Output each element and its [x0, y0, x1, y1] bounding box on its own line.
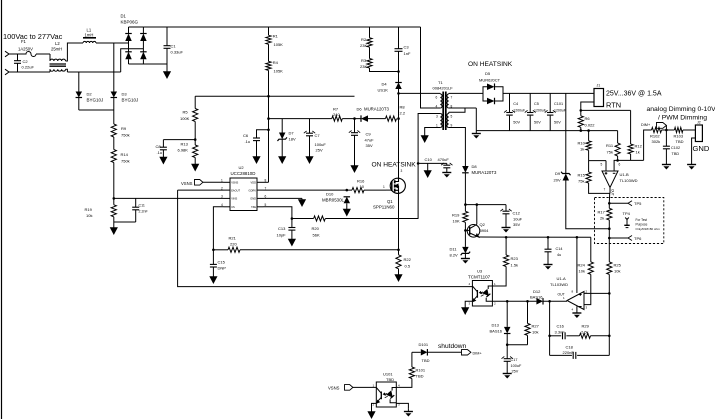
wire D6 to R8: [368, 118, 386, 120]
svg-text:1.5k: 1.5k: [511, 263, 519, 268]
svg-text:Purpose: Purpose: [636, 223, 648, 227]
svg-text:R29: R29: [582, 324, 590, 329]
svg-text:R20: R20: [312, 226, 320, 231]
svg-text:5: 5: [451, 115, 453, 119]
wire C101 column top: [549, 93, 551, 112]
svg-text:C18: C18: [566, 345, 574, 350]
wire U3 cathode line: [492, 300, 536, 302]
wire to R9: [113, 110, 115, 124]
wire U101 to R101: [396, 379, 412, 388]
wire U1A in+ wire: [584, 274, 591, 304]
junction drain top: [397, 92, 400, 95]
wire CS line left: [213, 249, 228, 251]
ground under J2: [687, 163, 696, 170]
svg-text:DIM+: DIM+: [641, 123, 651, 127]
wire RTN line: [581, 109, 631, 111]
ground under U1-A: [572, 312, 581, 319]
resistor R19 secondary: [463, 211, 468, 222]
wire U3 anode: [492, 285, 506, 287]
svg-text:100Vac to 277Vac: 100Vac to 277Vac: [3, 32, 63, 41]
test point TP4 symbol: [624, 218, 629, 228]
bridge left column mid wire: [128, 41, 130, 52]
junction R5 bottom: [194, 138, 197, 141]
wire R15 to out: [589, 183, 610, 193]
capacitor C18: [573, 352, 576, 359]
wire C102 top: [665, 130, 667, 146]
wire C16 to R29: [566, 335, 579, 337]
wire Q2 collector: [476, 205, 478, 225]
inductor L1: [83, 41, 96, 43]
wire J1 RTN pin: [581, 102, 594, 116]
svg-text:8.2V: 8.2V: [450, 253, 459, 258]
wire CS line right: [240, 249, 399, 251]
primary ground pin6: [298, 198, 306, 207]
primary ground under R13: [191, 158, 199, 172]
junction C17 node: [506, 343, 509, 346]
terminal VSNS top: [195, 180, 203, 186]
wire pin7 to D5: [449, 92, 483, 94]
primary ground under C15: [209, 267, 217, 284]
wire R15 link: [588, 161, 590, 172]
wire R5 top: [194, 96, 196, 108]
wire gate into Q1: [386, 189, 392, 191]
svg-text:6: 6: [436, 96, 438, 100]
svg-text:ON HEATSINK: ON HEATSINK: [468, 61, 513, 68]
wire J2 gnd pin: [692, 138, 696, 163]
svg-text:10k: 10k: [86, 213, 92, 218]
wire aux column elbow: [417, 218, 419, 220]
wire R23 to opto: [492, 267, 506, 287]
secondary ground under C12: [502, 214, 511, 233]
svg-text:R101: R101: [416, 368, 426, 373]
svg-text:C8: C8: [156, 144, 162, 149]
rectifier D5 bottom diode: [487, 98, 495, 105]
svg-text:For Test: For Test: [636, 218, 648, 222]
wire drain column: [398, 93, 400, 178]
inductor L2 core lines: [50, 64, 67, 66]
svg-text:0.5: 0.5: [405, 264, 411, 269]
svg-text:105K: 105K: [274, 42, 284, 47]
wire C7 hang: [309, 119, 311, 134]
bridge diode D1b: [125, 52, 132, 60]
wire bus to C3: [398, 27, 400, 49]
svg-text:TCMT1107: TCMT1107: [468, 274, 491, 279]
svg-text:50V: 50V: [513, 121, 520, 125]
svg-text:0084201LF: 0084201LF: [433, 86, 454, 91]
op-amp U1-A: [567, 292, 584, 310]
capacitor C6: [253, 138, 260, 141]
junction C10 on aux column: [417, 162, 420, 165]
wire pin8-pin5 jog: [449, 108, 465, 112]
connector J1 box: [594, 89, 604, 107]
resistor R8: [386, 116, 397, 121]
capacitor C15: [210, 264, 217, 267]
junction comp left1: [548, 335, 551, 338]
svg-text:U3: U3: [477, 269, 483, 274]
wire R10 bottom: [588, 150, 590, 160]
wire U1A in- wire: [584, 292, 609, 294]
diode D101: [421, 349, 428, 356]
svg-text:7: 7: [604, 188, 606, 192]
svg-text:C1: C1: [171, 44, 177, 49]
resistor R24: [588, 262, 593, 275]
wire C11 top: [135, 198, 137, 207]
svg-text:C10: C10: [425, 157, 433, 162]
wire R19 bottom: [113, 217, 115, 222]
svg-text:50V: 50V: [534, 121, 541, 125]
wire in- segment: [614, 160, 644, 171]
svg-text:TP5: TP5: [634, 201, 642, 206]
wire R12 column: [630, 110, 632, 144]
U2 left pin 1 stub: [224, 181, 231, 183]
bridge left column bottom wire: [128, 59, 130, 64]
svg-text:0.22uF: 0.22uF: [22, 65, 35, 70]
svg-text:shutdown: shutdown: [438, 343, 467, 350]
junction CS at source: [397, 249, 400, 252]
wire VSNS to pin1: [203, 181, 224, 183]
resistor R6: [578, 116, 583, 128]
wire node139 to C8: [163, 139, 195, 141]
wire to D101: [412, 351, 421, 353]
test point TP5: [628, 201, 632, 206]
resistor R23: [504, 255, 509, 267]
svg-text:9: 9: [451, 124, 453, 128]
primary ground under C8: [159, 150, 167, 165]
svg-text:D12: D12: [533, 289, 541, 294]
U2 right pin 7 stub: [257, 189, 264, 191]
svg-text:.1u: .1u: [157, 150, 163, 155]
svg-text:MBR0530L: MBR0530L: [322, 197, 345, 202]
primary ground under R22: [394, 269, 402, 282]
wire R3 to snubber node: [370, 68, 399, 72]
wire secondary gnd rail: [476, 130, 617, 132]
svg-text:1200uF: 1200uF: [513, 109, 525, 113]
wire U101 pin2 gnd: [372, 403, 377, 408]
primary ground under C7: [305, 136, 313, 164]
wire choke to L1: [66, 43, 84, 61]
svg-text:VDD: VDD: [251, 181, 257, 185]
junction rail118 drain: [397, 117, 400, 120]
wire TZE line: [292, 218, 314, 220]
svg-text:75k: 75k: [607, 150, 613, 155]
svg-text:R3: R3: [361, 58, 367, 63]
svg-text:C102: C102: [671, 146, 680, 150]
terminal DIM+ top: [657, 123, 667, 129]
T1 secondary winding 1: [447, 94, 449, 108]
svg-text:C9: C9: [366, 132, 372, 137]
diode D3: [111, 92, 118, 98]
wire D8 to node: [464, 173, 466, 212]
wire Q1 source column: [398, 193, 400, 255]
resistor R3: [367, 59, 372, 69]
wire T1 pin6 stub: [439, 92, 441, 95]
wire R6 bottom: [580, 127, 582, 130]
svg-text:R15: R15: [578, 173, 586, 178]
junction VINS node: [113, 197, 116, 200]
wire T1 pin5 stub: [448, 112, 450, 113]
svg-text:10k: 10k: [614, 269, 620, 274]
capacitor C10: [441, 163, 452, 168]
rectifier D5 frame: [483, 87, 503, 101]
capacitor C7: [304, 131, 315, 136]
resistor R5: [193, 109, 198, 122]
svg-text:240: 240: [333, 112, 340, 117]
wire D2 bottom: [78, 98, 80, 111]
wire R14 to VINS node: [113, 163, 115, 199]
wire in+ stub: [605, 161, 607, 171]
resistor R102: [652, 127, 662, 132]
svg-text:C4: C4: [513, 102, 518, 106]
svg-text:C5: C5: [534, 102, 539, 106]
transistor Q2 symbol: [467, 224, 480, 237]
svg-text:D13: D13: [492, 323, 500, 328]
wire C6 stub: [257, 130, 269, 138]
wire in- node down: [608, 293, 610, 355]
wire R101 to D101: [411, 352, 413, 367]
svg-text:Q2: Q2: [480, 222, 486, 227]
U2 left pin 2 stub: [224, 189, 231, 191]
zener D7: [277, 133, 287, 142]
wire EAOUT rail: [178, 190, 473, 287]
svg-text:D7: D7: [289, 131, 295, 136]
svg-text:J2: J2: [697, 121, 701, 125]
capacitor C3: [395, 49, 403, 52]
svg-text:R17: R17: [598, 210, 606, 215]
wire C9 top: [354, 119, 356, 133]
bridge right column mid wire: [142, 41, 144, 52]
bridge diode D1c: [140, 34, 147, 42]
svg-text:TP4: TP4: [623, 211, 631, 216]
junction Q2 base: [464, 229, 467, 232]
wire T1 pin1 stub: [425, 128, 441, 132]
wire base stub: [465, 229, 469, 231]
svg-text:3: 3: [401, 169, 403, 173]
resistor R11: [615, 143, 620, 156]
wire T1 pin4 to bus: [421, 27, 441, 108]
ground under U101 left: [367, 408, 375, 419]
svg-text:302k: 302k: [652, 139, 661, 144]
wire R7 to C9 node: [342, 118, 361, 120]
svg-text:C3: C3: [404, 45, 410, 50]
svg-text:TBD: TBD: [672, 152, 680, 156]
wire C5 column top: [529, 93, 531, 112]
svg-text:1k: 1k: [636, 150, 640, 155]
capacitor C102: [663, 146, 670, 149]
svg-text:7: 7: [451, 96, 453, 100]
svg-text:GND: GND: [693, 144, 710, 153]
svg-text:R14: R14: [121, 152, 129, 157]
svg-text:C15: C15: [218, 260, 226, 265]
wire node204 line: [465, 204, 506, 206]
wire reference rail: [479, 236, 591, 238]
resistor R9: [111, 124, 116, 137]
bridge diode D1a: [125, 34, 132, 42]
svg-text:TBD: TBD: [386, 377, 394, 382]
svg-text:analog Dimming 0-10V: analog Dimming 0-10V: [647, 106, 715, 113]
svg-text:1k: 1k: [580, 147, 584, 152]
svg-text:25mH: 25mH: [51, 47, 62, 52]
svg-text:TBD: TBD: [676, 139, 684, 144]
wire R9 to R14: [113, 137, 115, 150]
junction VDD at net96: [267, 95, 270, 98]
junction snubber node: [397, 70, 400, 73]
junction C13 node: [291, 217, 294, 220]
wire D9 column top: [565, 93, 567, 173]
svg-text:D11: D11: [450, 247, 458, 252]
wire GDRV line: [264, 189, 353, 191]
wire C17 top: [506, 345, 508, 359]
junction C16 node: [548, 300, 551, 303]
resistor R12: [628, 144, 633, 154]
terminal DIM+ shutdown: [462, 350, 471, 355]
diode D2: [76, 92, 83, 98]
svg-text:1: 1: [383, 185, 385, 189]
U2 left pin 3 stub: [224, 197, 231, 199]
wire R103 to J2: [683, 129, 696, 131]
wire C16 branch left: [549, 301, 551, 355]
wire pin4 to corner: [213, 207, 223, 250]
wire U3 emitter gnd: [465, 301, 472, 305]
U2 right pin 5 stub: [257, 206, 264, 208]
wire R25 to in- node: [608, 274, 610, 293]
junction TP6: [608, 237, 611, 240]
svg-text:3: 3: [436, 115, 438, 119]
svg-text:Q1: Q1: [387, 199, 393, 204]
junction C102 node: [665, 129, 668, 132]
resistor R16: [352, 188, 364, 193]
wire R4 to VDD column: [268, 70, 270, 182]
svg-text:5: 5: [601, 163, 603, 167]
svg-text:3: 3: [221, 195, 223, 199]
svg-text:1200uF: 1200uF: [554, 109, 566, 113]
wire VSNS to U101: [353, 386, 376, 388]
primary ground under C6: [252, 141, 260, 164]
svg-text:R10: R10: [578, 141, 586, 146]
svg-text:US1K: US1K: [378, 88, 389, 93]
capacitor C14: [545, 249, 552, 252]
primary ground under C9: [350, 135, 358, 173]
wire R12 bottom: [630, 154, 632, 160]
svg-text:D3: D3: [122, 92, 128, 97]
junction D10 on GDRV: [346, 189, 349, 192]
capacitor C13: [288, 228, 295, 231]
svg-text:100uF: 100uF: [511, 364, 522, 368]
junction RTN node: [580, 109, 583, 112]
svg-text:L2: L2: [55, 41, 60, 46]
svg-text:0.022: 0.022: [585, 123, 596, 128]
wire C12 top: [505, 205, 507, 212]
wire node93 to T1 pin6: [399, 92, 441, 94]
bridge right column bottom wire: [142, 59, 144, 64]
svg-text:D6: D6: [357, 107, 363, 112]
svg-text:2.5k: 2.5k: [581, 329, 589, 334]
wire D7 hang: [281, 119, 283, 133]
wire D13-R27 join: [507, 344, 527, 346]
svg-text:C11: C11: [139, 204, 145, 208]
capacitor C5: [525, 110, 536, 115]
wire net96: [195, 95, 354, 97]
wire D13 bottom: [506, 334, 508, 345]
bridge bottom rail: [129, 63, 168, 65]
primary ground under D10: [343, 203, 351, 216]
wire T1 pin9 to D8 column: [449, 128, 466, 167]
svg-text:R24: R24: [578, 263, 586, 268]
svg-text:GND: GND: [250, 197, 256, 201]
wire C11 bottom: [135, 210, 137, 222]
wire TP6 to R25: [608, 238, 610, 262]
resistor R20: [314, 216, 326, 221]
resistor R10: [586, 141, 591, 151]
wire R29 right: [591, 335, 610, 337]
resistor R25: [607, 262, 612, 275]
wire C3 to node71: [398, 51, 400, 71]
capacitor C11: [132, 207, 139, 210]
wire ac line2 bottom: [9, 71, 50, 73]
wire D2 hang: [78, 72, 80, 92]
junction C9 top: [353, 117, 356, 120]
wire choke bottom left jog: [49, 69, 51, 72]
diode D4: [395, 83, 402, 90]
svg-text:R12: R12: [635, 144, 643, 149]
svg-text:DNP: DNP: [218, 266, 227, 271]
secondary ground under C10: [442, 168, 451, 178]
svg-text:6: 6: [619, 163, 621, 167]
svg-text:R19: R19: [452, 213, 460, 218]
svg-text:0.33uF: 0.33uF: [171, 50, 184, 55]
resistor R13: [193, 145, 198, 158]
U2 left pin 4 stub: [224, 206, 231, 208]
junction R10 gnd: [587, 129, 590, 132]
svg-text:R5: R5: [183, 110, 189, 115]
capacitor C1: [164, 46, 171, 49]
svg-text:D4: D4: [382, 82, 388, 87]
wire R19 C11 join: [114, 221, 136, 223]
resistor R2: [367, 38, 372, 48]
input terminal line2: [5, 69, 9, 75]
diode D12: [536, 298, 543, 305]
primary ground C10 left: [424, 163, 432, 178]
svg-text:R1: R1: [273, 34, 279, 39]
svg-text:47uF: 47uF: [365, 138, 375, 143]
svg-text:R103: R103: [674, 134, 684, 139]
resistor R4: [266, 61, 271, 70]
svg-text:R13: R13: [181, 142, 189, 147]
wire R24 top: [590, 237, 592, 262]
T1 primary winding: [440, 94, 442, 108]
svg-text:F1: F1: [21, 39, 27, 44]
svg-text:10k: 10k: [532, 330, 538, 335]
resistor R1: [266, 35, 271, 44]
svg-text:23K: 23K: [360, 64, 367, 69]
svg-text:BYG10J: BYG10J: [122, 98, 139, 103]
svg-text:20V: 20V: [554, 178, 561, 183]
svg-text:BAS16: BAS16: [530, 294, 543, 299]
svg-text:10k: 10k: [579, 269, 585, 274]
wire C10 top: [446, 163, 448, 165]
wire L1 into bridge: [96, 42, 129, 44]
wire T1 pin3 to aux column: [418, 114, 440, 219]
wire C4 column bottom: [509, 116, 511, 131]
wire D2-D3 join: [79, 109, 114, 111]
svg-text:ON HEATSINK: ON HEATSINK: [372, 162, 417, 169]
svg-text:VINS: VINS: [231, 197, 237, 201]
wire bus to R2: [369, 27, 371, 38]
wire C2 top stub: [17, 54, 19, 61]
junction R11 in-: [616, 159, 619, 162]
svg-text:VSNS: VSNS: [231, 181, 238, 185]
wire dim line left: [644, 130, 652, 160]
L1 core bar: [83, 37, 96, 39]
